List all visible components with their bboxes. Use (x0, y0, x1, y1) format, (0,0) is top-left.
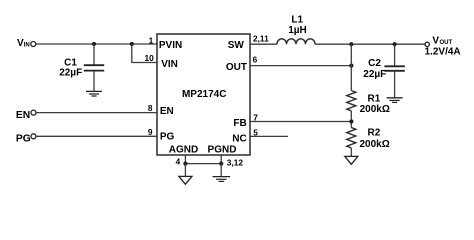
wire AGND stub (184, 155, 186, 164)
wire OUT to rail (250, 65, 351, 67)
terminal EN (16, 110, 36, 121)
svg-text:10: 10 (144, 53, 154, 63)
ground R2 (signal triangle) (345, 156, 358, 164)
svg-text:MP2174C: MP2174C (182, 89, 226, 100)
node PGND junction (219, 162, 223, 166)
wire R2 to ground (350, 148, 352, 156)
svg-text:V: V (432, 35, 439, 46)
node OUT junction (349, 64, 353, 68)
node VIN branch junction (130, 42, 134, 46)
wire VIN rail to pin1 (36, 43, 157, 45)
svg-text:200kΩ: 200kΩ (360, 139, 390, 150)
ground C2 (earth) (387, 98, 403, 103)
terminal VIN (17, 38, 36, 49)
svg-text:22µF: 22µF (59, 67, 82, 78)
svg-text:R1: R1 (368, 93, 381, 104)
svg-text:OUT: OUT (226, 62, 247, 73)
resistor R2 (347, 127, 390, 150)
node FB junction (349, 119, 353, 123)
svg-text:8: 8 (148, 103, 153, 113)
wire R1 to FB node (350, 111, 352, 128)
wire AGND to PGND (185, 163, 221, 165)
capacitor C1 (59, 44, 104, 91)
node C2 junction (393, 42, 397, 46)
inductor L1 (277, 14, 315, 44)
svg-text:4: 4 (176, 157, 181, 167)
svg-text:1: 1 (149, 35, 154, 45)
svg-text:FB: FB (233, 118, 246, 129)
resistor R1 (347, 91, 390, 115)
op IC U1 MP2174C box (157, 34, 250, 155)
ground AGND (signal triangle) (179, 176, 192, 184)
svg-text:PVIN: PVIN (159, 40, 182, 51)
svg-text:EN: EN (16, 110, 30, 121)
node C1 junction (92, 42, 96, 46)
terminal PG (16, 134, 36, 145)
svg-text:PG: PG (16, 134, 31, 145)
terminal VOUT (425, 35, 461, 57)
svg-text:2,11: 2,11 (253, 33, 269, 43)
svg-text:IN: IN (24, 43, 30, 49)
svg-text:NC: NC (232, 134, 246, 145)
svg-text:22µF: 22µF (363, 69, 386, 80)
svg-text:AGND: AGND (169, 144, 198, 155)
svg-text:SW: SW (228, 40, 245, 51)
svg-text:VIN: VIN (161, 59, 178, 70)
node R1 top junction (349, 42, 353, 46)
wire L1 to VOUT (315, 43, 425, 45)
wire rail vertical (350, 44, 352, 90)
wire PG to pin9 (36, 135, 157, 137)
svg-text:PGND: PGND (208, 144, 237, 155)
svg-text:200kΩ: 200kΩ (360, 104, 390, 115)
ground C1 (earth) (86, 91, 102, 96)
capacitor C2 (363, 44, 405, 97)
svg-text:1µH: 1µH (288, 25, 307, 36)
wire SW to L1 (250, 43, 277, 45)
svg-text:6: 6 (253, 55, 258, 65)
svg-text:3,12: 3,12 (227, 157, 244, 167)
node AGND junction (183, 162, 187, 166)
wire EN to pin8 (36, 112, 157, 114)
svg-text:1.2V/4A: 1.2V/4A (425, 46, 461, 57)
wire PGND down (220, 164, 222, 177)
wire AGND down (184, 164, 186, 177)
svg-text:OUT: OUT (440, 40, 453, 46)
svg-text:L1: L1 (291, 14, 303, 25)
ground PGND (earth) (213, 177, 231, 182)
svg-text:EN: EN (160, 106, 174, 117)
wire PGND stub (220, 155, 222, 164)
svg-text:C2: C2 (368, 58, 381, 69)
wire FB (250, 121, 351, 123)
svg-text:PG: PG (160, 131, 175, 142)
wire NC stub (250, 135, 288, 137)
svg-text:R2: R2 (368, 127, 381, 138)
wire branch to pin10 VIN (132, 44, 157, 63)
